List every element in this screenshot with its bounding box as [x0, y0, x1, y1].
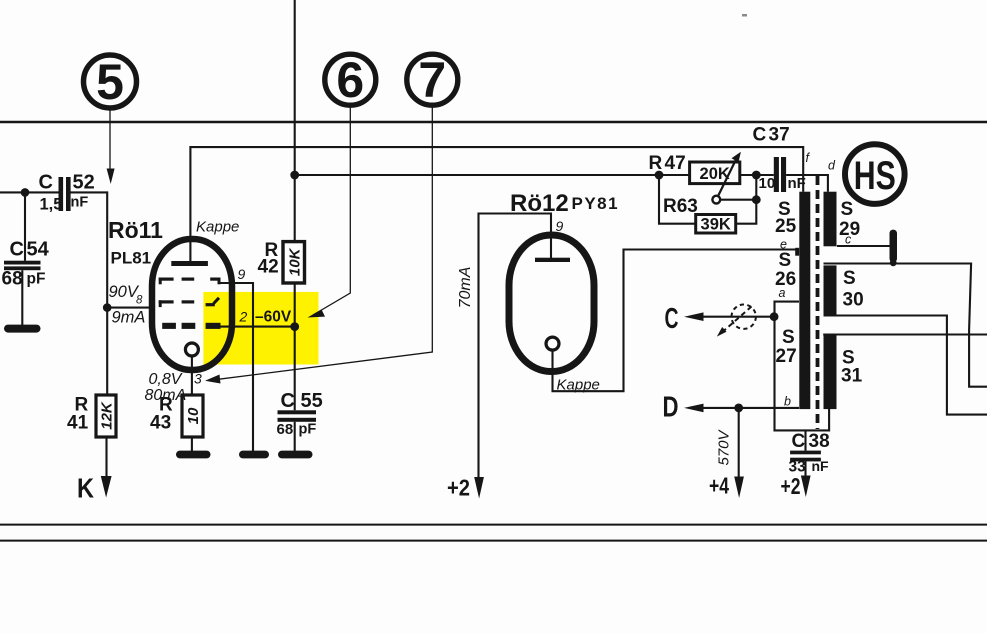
- svg-text:52: 52: [73, 172, 95, 194]
- HS circle: [845, 144, 905, 204]
- resistor R63 (39K box): [696, 215, 736, 234]
- svg-text:68: 68: [2, 269, 23, 290]
- capacitor C37: [753, 125, 806, 193]
- svg-text:5: 5: [96, 54, 124, 110]
- speck: [742, 14, 747, 17]
- svg-text:68: 68: [277, 421, 294, 438]
- label S 26: [775, 250, 796, 290]
- D output arrow: [663, 392, 704, 424]
- node dot C arrow / a: [770, 312, 779, 321]
- node dot R47 left: [655, 171, 664, 180]
- wire D line: [700, 407, 799, 409]
- svg-text:Kappe: Kappe: [196, 219, 239, 236]
- ground under pin9 wire: [239, 451, 269, 459]
- svg-text:1,5: 1,5: [40, 196, 63, 214]
- svg-text:D: D: [663, 392, 679, 424]
- svg-text:37: 37: [769, 125, 790, 146]
- svg-text:570V: 570V: [716, 428, 733, 465]
- svg-text:3: 3: [194, 371, 202, 387]
- terminal pill on c wire: [890, 230, 898, 263]
- svg-text:C: C: [792, 431, 806, 452]
- capacitor C54: [2, 239, 50, 290]
- leader line from circle 7: [205, 107, 432, 384]
- tube Rö11: [108, 217, 239, 370]
- svg-text:6: 6: [336, 52, 364, 108]
- +2 arrow right: [781, 473, 811, 499]
- svg-text:10: 10: [185, 407, 202, 424]
- label 90V pin8: [109, 283, 146, 327]
- svg-text:27: 27: [776, 346, 797, 367]
- node dot wiper net: [752, 195, 761, 204]
- wire Rö12 cathode loop to e tap: [553, 250, 796, 392]
- svg-text:C: C: [753, 125, 767, 146]
- wire R63 loop: [659, 175, 756, 224]
- svg-text:43: 43: [150, 413, 171, 434]
- callout circle 5: [84, 54, 137, 110]
- svg-text:12K: 12K: [99, 401, 116, 430]
- wire C arrow line: [700, 316, 774, 318]
- node dot D / 570V: [734, 404, 743, 413]
- svg-text:9: 9: [556, 218, 564, 234]
- wire Rö11 cathode to R43: [191, 355, 193, 395]
- wire R47 wiper to node: [720, 199, 756, 201]
- svg-text:39K: 39K: [701, 216, 731, 234]
- svg-text:pF: pF: [299, 422, 317, 438]
- e tap stub: [795, 248, 799, 256]
- node dot terminal on S30 wire: [890, 259, 897, 266]
- dashed adjust circle: [717, 305, 756, 337]
- capacitor C38: [789, 431, 830, 476]
- label S 31: [841, 348, 863, 387]
- Rö12 anode plate: [535, 258, 570, 262]
- C output arrow: [665, 303, 704, 335]
- wire C52 right to corner down to R41: [71, 192, 108, 395]
- Rö11 grid row 2: [159, 298, 219, 307]
- wire pin9 of Rö11 down to ground: [218, 283, 253, 452]
- svg-text:54: 54: [27, 239, 50, 261]
- svg-text:2: 2: [239, 309, 248, 325]
- svg-text:nF: nF: [812, 458, 830, 474]
- node dot R47 right: [752, 171, 761, 180]
- svg-text:10: 10: [759, 175, 776, 192]
- label S 30: [843, 268, 864, 311]
- transformer primary bar S25-S27: [799, 192, 810, 409]
- wire grid2 -60V to node: [219, 326, 295, 328]
- svg-text:C: C: [281, 390, 295, 412]
- callout circle 7: [407, 52, 458, 108]
- wire R42 bottom to C55: [294, 283, 296, 410]
- wire c tap to terminal: [837, 245, 890, 247]
- svg-text:+2: +2: [781, 473, 801, 499]
- bottom border line 2: [0, 540, 987, 542]
- svg-text:47: 47: [665, 153, 686, 174]
- svg-text:+2: +2: [447, 475, 470, 501]
- svg-text:S: S: [779, 250, 792, 271]
- svg-text:7: 7: [418, 52, 446, 108]
- wire C55 to ground: [294, 422, 296, 452]
- label R 47: [649, 153, 686, 174]
- svg-text:41: 41: [67, 413, 89, 434]
- ground under R43: [176, 451, 211, 459]
- svg-text:PY81: PY81: [572, 194, 620, 213]
- wire 570V drop: [738, 408, 740, 478]
- svg-text:9: 9: [238, 266, 246, 282]
- transformer winding S29 bar: [824, 192, 837, 247]
- svg-text:HS: HS: [854, 154, 896, 198]
- node dot C52/C54: [21, 188, 30, 197]
- label S 25: [775, 199, 797, 237]
- ground under C54: [4, 325, 41, 333]
- wire S30 top to right edge exit: [824, 264, 987, 387]
- wire C52 left: [0, 191, 59, 193]
- svg-text:Rö12: Rö12: [510, 190, 569, 217]
- Rö11 anode plate: [171, 261, 208, 266]
- leader line from circle 6: [308, 107, 351, 318]
- node dot -60V: [290, 322, 299, 331]
- wire screen bus y=147: [190, 147, 803, 261]
- Rö11 cathode circle: [185, 343, 198, 356]
- svg-text:C: C: [10, 239, 24, 261]
- frame top border line: [0, 121, 987, 124]
- svg-text:C: C: [39, 172, 53, 194]
- svg-text:9mA: 9mA: [112, 309, 146, 327]
- svg-text:10K: 10K: [287, 247, 304, 276]
- wire C37 output to d: [786, 175, 828, 192]
- leader line from circle 5: [107, 111, 115, 185]
- transformer winding S30 bar: [824, 265, 837, 316]
- svg-text:R63: R63: [663, 196, 698, 217]
- svg-text:K: K: [77, 473, 94, 504]
- wire C54 branch: [22, 192, 25, 325]
- svg-text:30: 30: [843, 290, 864, 311]
- svg-text:nF: nF: [788, 175, 806, 192]
- svg-text:–60V: –60V: [255, 309, 292, 326]
- callout circle 6: [325, 52, 376, 108]
- svg-text:pF: pF: [27, 271, 46, 288]
- svg-text:26: 26: [775, 269, 796, 290]
- Rö11 grid row 3 (cathode dashes): [162, 323, 220, 329]
- svg-text:PL81: PL81: [111, 249, 152, 268]
- resistor R47 (20K box): [690, 162, 740, 184]
- wire top vertical at x=294.7: [294, 0, 296, 242]
- wire pin8 horizontal: [107, 307, 155, 309]
- svg-text:R: R: [649, 153, 663, 174]
- capacitor C52: [39, 172, 95, 214]
- svg-text:b: b: [784, 395, 791, 409]
- bottom border line 1: [0, 524, 987, 526]
- R47 wiper circle: [712, 196, 720, 204]
- svg-text:S: S: [841, 199, 854, 220]
- resistor R43: [150, 395, 203, 438]
- svg-text:Rö11: Rö11: [108, 217, 163, 243]
- wire S30 bottom to right edge exit: [824, 316, 987, 415]
- K output arrow: [77, 473, 112, 504]
- label 0,8V 80mA: [145, 371, 187, 404]
- svg-text:C: C: [665, 303, 679, 335]
- svg-text:d: d: [828, 159, 836, 173]
- wire R43 to ground: [191, 437, 193, 452]
- resistor R42: [258, 240, 305, 283]
- svg-text:nF: nF: [71, 195, 89, 211]
- tube Rö12: [509, 190, 619, 394]
- svg-text:55: 55: [301, 390, 323, 412]
- svg-text:25: 25: [775, 216, 797, 237]
- wire a tap vertical: [775, 302, 830, 431]
- Rö11 grid row 1: [159, 278, 221, 285]
- R47 adjust arrow: [716, 152, 741, 200]
- node dot R42 top: [290, 171, 299, 180]
- resistor R41: [67, 395, 116, 438]
- svg-text:29: 29: [839, 219, 860, 240]
- svg-text:+4: +4: [709, 473, 729, 499]
- wire R41 to K arrow: [105, 437, 107, 478]
- label S 27: [776, 327, 797, 367]
- label S 29: [839, 199, 860, 240]
- wire C38 stub and drop: [804, 430, 806, 476]
- svg-text:0,8V: 0,8V: [149, 371, 183, 388]
- transformer winding S31 bar: [824, 336, 837, 410]
- svg-text:S: S: [782, 327, 795, 348]
- svg-text:S: S: [843, 268, 856, 289]
- svg-text:8: 8: [136, 295, 143, 307]
- highlight box (yellow): [203, 292, 318, 365]
- +2 arrow left (boost): [447, 475, 484, 501]
- wire boost bus y=175: [295, 174, 774, 176]
- Rö12 cathode circle: [546, 337, 559, 350]
- transformer core dashed line: [816, 176, 820, 429]
- node dot 90V pin8: [103, 303, 112, 312]
- +4 arrow: [709, 473, 744, 499]
- svg-text:70mA: 70mA: [457, 267, 474, 309]
- wire S31 top to right edge: [823, 333, 987, 335]
- svg-text:42: 42: [258, 257, 279, 278]
- wire Rö12 plate loop with 70mA branch: [479, 214, 552, 479]
- svg-text:31: 31: [841, 366, 863, 387]
- svg-text:Kappe: Kappe: [557, 377, 600, 394]
- capacitor C55: [277, 390, 323, 438]
- ground under C55: [278, 451, 313, 459]
- svg-text:38: 38: [809, 431, 830, 452]
